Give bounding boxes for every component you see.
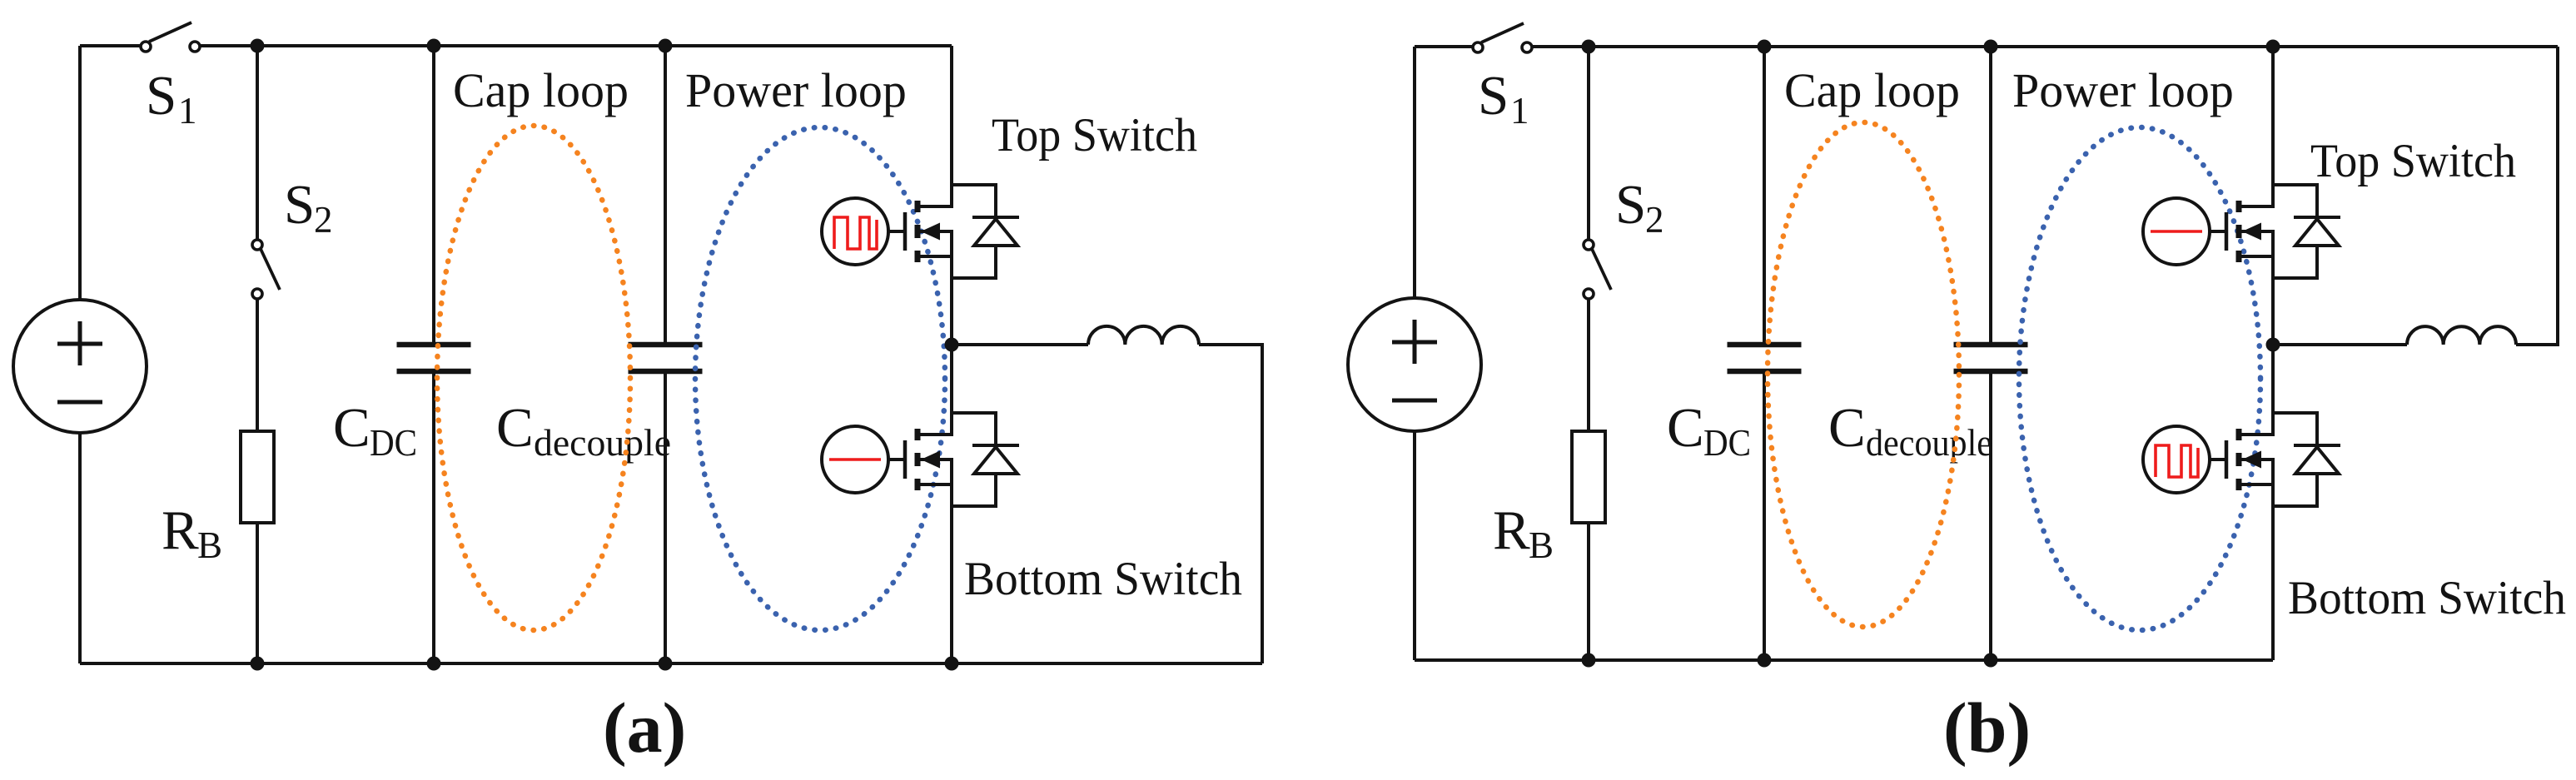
svg-text:(a): (a) [603, 688, 686, 768]
power loop dotted ellipse (a) [695, 127, 945, 630]
switch S2 (b) [1584, 240, 1611, 299]
resistor RB (b) [1572, 431, 1605, 523]
node dots top rail (b) [1582, 40, 2280, 54]
label RB (a) [162, 499, 222, 566]
wire C_DC branch (b) [1763, 47, 1766, 660]
transistor Q1 top (a) gate bar [903, 212, 908, 251]
wire diode loop top Q2 bottom (b) [2273, 413, 2317, 445]
svg-text:Bottom Switch: Bottom Switch [964, 553, 1242, 605]
gate driver circle Q1 top (b)-drv [2143, 198, 2210, 265]
transistor Q2 bottom (b) body stub with arrow [2239, 451, 2275, 469]
node dots bottom rail (b) [1582, 653, 1998, 668]
svg-text:C: C [496, 397, 534, 459]
transistor Q1 top (b) body stub with arrow [2239, 223, 2275, 241]
svg-text:R: R [1493, 499, 1530, 561]
node dots top rail (a) [251, 39, 673, 53]
off-level waveform symbol Q1 top (b)-flat [2151, 230, 2202, 233]
wire S2/RB branch (a) [256, 46, 259, 663]
diode Q2 bottom (b)-D triangle [2295, 447, 2339, 474]
wire gate lead Q1 top (b) [2210, 230, 2226, 233]
svg-text:1: 1 [178, 90, 197, 132]
svg-text:S: S [1615, 174, 1646, 236]
svg-text:Cap loop: Cap loop [1784, 63, 1960, 117]
wire S2/RB branch (b) [1587, 47, 1590, 660]
voltage source V1 (a) [13, 300, 147, 433]
diode Q1 top (b)-D cathode bar [2294, 216, 2340, 219]
switch S2 (a) [252, 240, 280, 299]
transistor Q2 bottom (b) channel segments [2236, 429, 2242, 490]
capacitor C_DC (a) [397, 345, 471, 371]
diode Q1 top (b)-D triangle [2295, 219, 2339, 246]
wire half-bridge leg (a) [950, 46, 953, 663]
svg-text:Top Switch: Top Switch [992, 109, 1197, 161]
PWM waveform symbol Q2 bottom (b)-pwm [2156, 445, 2198, 477]
transistor Q2 bottom (a) gate bar [903, 440, 908, 479]
wire top rail (a) [80, 44, 952, 47]
transistor Q2 bottom (b) drain stub [2239, 433, 2275, 436]
label S2 (b) [1615, 174, 1664, 241]
power loop dotted ellipse (b) [2019, 127, 2260, 630]
wire inductor to top-right corner (b) [2516, 47, 2558, 345]
wire diode loop bottom Q2 bottom (b) [2273, 474, 2317, 506]
diode Q1 top (a)-D triangle [974, 219, 1017, 246]
svg-text:2: 2 [314, 199, 333, 241]
svg-text:C: C [1667, 397, 1704, 459]
svg-text:Power loop: Power loop [685, 63, 907, 117]
node dot midpoint (b) [2266, 338, 2280, 352]
svg-text:Power loop: Power loop [2012, 63, 2234, 117]
wire C_DC branch (a) [432, 46, 435, 663]
label S1 (a) [146, 65, 197, 132]
svg-text:C: C [333, 397, 370, 459]
svg-text:DC: DC [1703, 422, 1751, 464]
cap loop dotted ellipse (b) [1768, 122, 1959, 627]
transistor Q2 bottom (b) source stub [2239, 483, 2275, 486]
wire left leg with source gap (b) [1413, 47, 1416, 660]
svg-text:R: R [162, 499, 199, 561]
transistor Q1 top (a) body stub with arrow [918, 223, 953, 241]
switch S1 (a) [141, 22, 200, 52]
inductor L (b) [2407, 326, 2516, 345]
wire midpoint to inductor (a) [952, 343, 1088, 346]
transistor Q1 top (a) source stub [918, 255, 953, 258]
capacitor C_DC (b) [1728, 345, 1802, 371]
svg-text:S: S [1478, 65, 1509, 127]
svg-text:C: C [1828, 397, 1866, 459]
wire diode loop bottom Q2 bottom (a) [952, 474, 996, 506]
wire inductor to bottom-right corner (a) [1199, 345, 1262, 663]
switch S1 (b) [1473, 23, 1532, 52]
label C_decouple (a) [496, 397, 671, 464]
capacitor C_decouple (b) [1954, 345, 2028, 371]
transistor Q1 top (b) channel segments [2236, 201, 2242, 262]
gate driver circle Q2 bottom (a)-drv [822, 426, 888, 493]
wire diode loop top Q2 bottom (a) [952, 413, 996, 445]
diode Q2 bottom (a)-D triangle [974, 447, 1017, 474]
resistor RB (a) [241, 431, 274, 523]
inductor L (a) [1088, 326, 1199, 345]
wire diode loop top Q1 top (a) [952, 185, 996, 217]
transistor Q2 bottom (b) gate bar [2225, 440, 2229, 479]
voltage source V1 (b) [1348, 298, 1481, 431]
label C_DC (a) [333, 397, 417, 464]
PWM waveform symbol Q1 top (a)-pwm [834, 217, 877, 249]
capacitor C_decouple (a) [629, 345, 703, 371]
transistor Q2 bottom (a) body stub with arrow [918, 451, 953, 469]
svg-text:(b): (b) [1943, 688, 2031, 768]
transistor Q2 bottom (a) channel segments [915, 429, 921, 490]
svg-text:2: 2 [1645, 199, 1664, 241]
svg-text:Top Switch: Top Switch [2310, 135, 2516, 187]
svg-text:Bottom Switch: Bottom Switch [2288, 572, 2566, 624]
wire top rail (b) [1415, 45, 2558, 48]
label C_DC (b) [1667, 397, 1751, 464]
wire half-bridge leg (b) [2271, 47, 2275, 660]
wire diode loop top Q1 top (b) [2273, 185, 2317, 217]
svg-text:S: S [146, 65, 177, 127]
svg-text:Cap loop: Cap loop [453, 63, 629, 117]
wire bottom rail (a) [80, 662, 1262, 665]
label S1 (b) [1478, 65, 1529, 132]
wire gate lead Q2 bottom (a) [888, 458, 905, 461]
svg-text:1: 1 [1510, 90, 1529, 132]
node dot midpoint (a) [945, 338, 959, 352]
wire C_decouple branch (b) [1989, 47, 1992, 660]
wire C_decouple branch (a) [664, 46, 667, 663]
node dots bottom rail (a) [251, 657, 959, 671]
svg-text:S: S [284, 174, 315, 236]
wire diode loop bottom Q1 top (b) [2273, 246, 2317, 278]
wire midpoint to inductor (b) [2273, 343, 2407, 346]
svg-text:B: B [197, 524, 222, 566]
transistor Q1 top (a) channel segments [915, 201, 921, 262]
off-level waveform symbol Q2 bottom (a)-flat [829, 458, 881, 461]
wire diode loop bottom Q1 top (a) [952, 246, 996, 278]
diode Q2 bottom (a)-D cathode bar [972, 444, 1019, 447]
label S2 (a) [284, 174, 333, 241]
transistor Q1 top (b) source stub [2239, 255, 2275, 258]
gate driver circle Q1 top (a)-drv [822, 198, 888, 265]
transistor Q1 top (b) gate bar [2225, 212, 2229, 251]
svg-text:decouple: decouple [534, 422, 671, 464]
label C_decouple (b) [1828, 397, 1992, 464]
cap loop dotted ellipse (a) [437, 126, 630, 630]
gate driver circle Q2 bottom (b)-drv [2143, 426, 2210, 493]
wire gate lead Q1 top (a) [888, 230, 905, 233]
svg-text:decouple: decouple [1866, 422, 1992, 464]
svg-text:B: B [1529, 524, 1554, 566]
transistor Q2 bottom (a) source stub [918, 483, 953, 486]
wire gate lead Q2 bottom (b) [2210, 458, 2226, 461]
wire bottom rail (b) [1415, 658, 2273, 662]
transistor Q2 bottom (a) drain stub [918, 433, 953, 436]
transistor Q1 top (b) drain stub [2239, 205, 2275, 208]
diode Q2 bottom (b)-D cathode bar [2294, 444, 2340, 447]
wire left leg with source gap (a) [78, 46, 82, 663]
transistor Q1 top (a) drain stub [918, 205, 953, 208]
diode Q1 top (a)-D cathode bar [972, 216, 1019, 219]
svg-text:DC: DC [370, 422, 417, 464]
label RB (b) [1493, 499, 1554, 566]
